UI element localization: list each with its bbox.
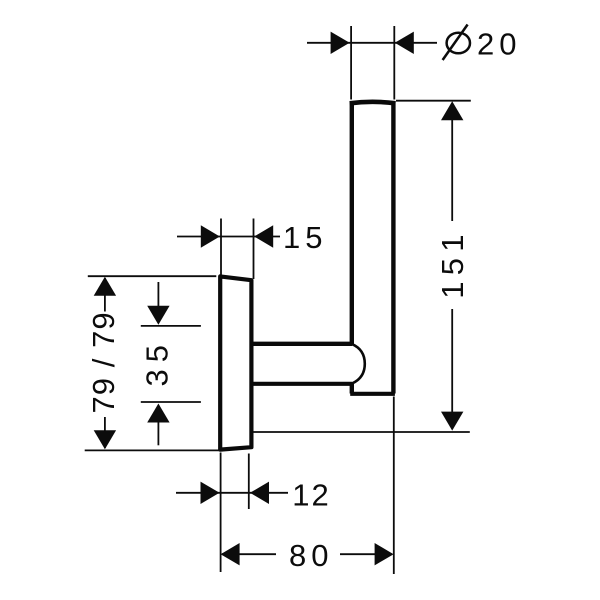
dim d20 right extension line xyxy=(393,26,395,100)
dim 15 line xyxy=(177,236,280,238)
dim 151 bottom arrow xyxy=(441,412,463,431)
dim d20 left arrow xyxy=(331,32,350,54)
dim 151 bottom extension line xyxy=(253,431,470,433)
dim d20 line xyxy=(307,42,437,44)
dim 80 left extension line xyxy=(220,453,222,573)
dim 12 line xyxy=(176,492,288,494)
dim 79/79 bottom extension line xyxy=(85,449,220,451)
dim 35 top arrow xyxy=(147,306,169,325)
tube left edge lower xyxy=(350,384,354,394)
dim 15 left extension line xyxy=(220,219,222,275)
dim 79/79 bottom arrow xyxy=(94,430,116,449)
svg-text:151: 151 xyxy=(435,228,470,299)
dim 151 line upper xyxy=(451,103,453,221)
wall plate xyxy=(220,276,251,449)
dim 151 line lower xyxy=(451,309,453,429)
tube left edge upper xyxy=(350,101,354,344)
dim 79/79 top extension line xyxy=(88,275,217,277)
dim 79/79 line lower xyxy=(104,417,106,448)
dim 12 right arrow xyxy=(250,482,269,504)
dim 80 right arrow xyxy=(375,543,394,565)
dim 80 line left xyxy=(222,553,276,555)
dim 35 top tick xyxy=(141,325,201,327)
dim 12 right extension line xyxy=(248,454,250,510)
dim 35 line upper xyxy=(157,282,159,307)
dim 79/79 line upper xyxy=(104,278,106,312)
arm top edge xyxy=(254,342,353,346)
dim 151 top arrow xyxy=(441,101,463,120)
dim 80 line right xyxy=(340,553,392,555)
dim d20 right arrow xyxy=(395,32,414,54)
arm bottom edge xyxy=(254,382,353,386)
dim 15 right extension line xyxy=(253,219,255,280)
dim d20 left extension line xyxy=(350,26,352,100)
dim 80 right extension line xyxy=(393,397,395,575)
joint dome xyxy=(352,344,365,383)
dim 79/79 top arrow xyxy=(94,277,116,296)
tube bottom cap xyxy=(350,392,395,396)
tube right edge xyxy=(391,101,395,394)
diameter symbol xyxy=(443,25,470,61)
dim 15 right arrow xyxy=(254,225,273,247)
dim 35 lower line xyxy=(157,421,159,445)
svg-text:20: 20 xyxy=(477,26,521,61)
dim 15 left arrow xyxy=(201,225,220,247)
dim 151 top extension line xyxy=(396,100,471,102)
svg-text:79 / 79: 79 / 79 xyxy=(86,311,121,413)
svg-text:12: 12 xyxy=(292,478,330,513)
dim 35 bottom arrow xyxy=(147,404,169,423)
tube top cap xyxy=(350,102,396,103)
dim 35 bottom tick xyxy=(141,401,201,403)
dim 80 left arrow xyxy=(221,543,240,565)
svg-text:35: 35 xyxy=(140,338,175,386)
svg-text:80: 80 xyxy=(289,538,333,573)
dim 12 left arrow xyxy=(201,482,220,504)
svg-text:15: 15 xyxy=(283,220,327,255)
